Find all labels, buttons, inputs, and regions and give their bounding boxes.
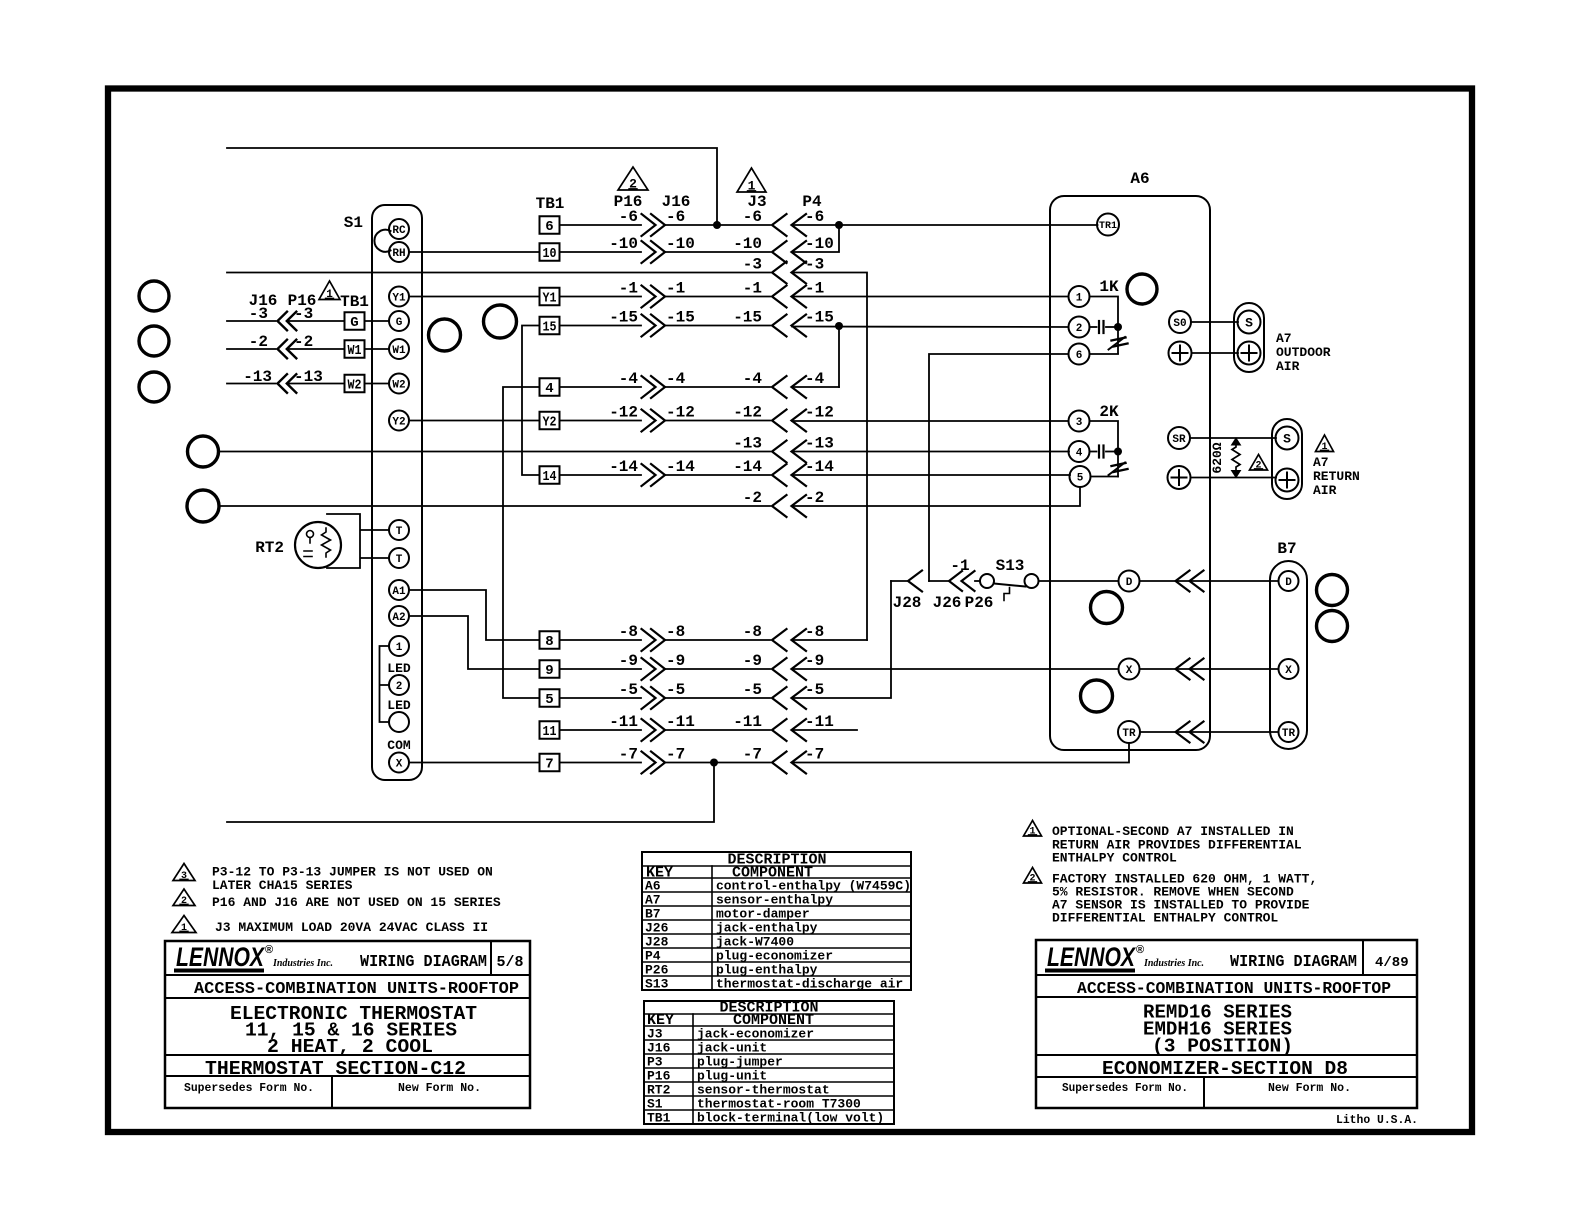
terminal A2: [389, 606, 409, 626]
terminal D (B7): [1279, 571, 1299, 591]
wire W1 box to S1: [365, 348, 390, 350]
resistor 1K wire: [1090, 297, 1119, 328]
svg-text:sensor-thermostat: sensor-thermostat: [697, 1083, 830, 1098]
connector J3/P4 -1: [772, 286, 787, 308]
wire TB1-5 to P16: [560, 697, 642, 699]
svg-text:-14: -14: [609, 458, 638, 476]
svg-text:J28: J28: [645, 935, 669, 950]
svg-text:plug-unit: plug-unit: [697, 1069, 767, 1084]
svg-text:D: D: [1126, 577, 1133, 589]
svg-text:2: 2: [181, 896, 187, 907]
wire P4-5 up to J28: [792, 581, 891, 698]
svg-text:-5: -5: [743, 681, 762, 699]
svg-text:A6: A6: [645, 879, 661, 894]
terminal plus return (A6): [1168, 466, 1191, 489]
svg-text:TR: TR: [1282, 728, 1296, 740]
svg-text:ENTHALPY CONTROL: ENTHALPY CONTROL: [1052, 851, 1177, 866]
wire top loop (field to J16-6): [227, 148, 717, 225]
svg-text:-6: -6: [666, 208, 685, 226]
connector P16/J16 -9: [642, 658, 656, 680]
svg-text:-15: -15: [733, 309, 762, 327]
connector J16/P16 -3 (left): [278, 312, 288, 331]
wire SR to return S: [1190, 437, 1276, 439]
wire -7 bottom loop: [227, 763, 714, 823]
wire RH to TB1-10: [409, 251, 540, 253]
connector P16/J16 -11: [642, 719, 656, 741]
svg-text:-13: -13: [805, 435, 834, 453]
svg-text:7: 7: [545, 757, 553, 773]
trimmer wire 2K: [1117, 452, 1119, 477]
wire terminal 5 right: [1091, 476, 1119, 478]
terminal TR1 (A6): [1097, 214, 1119, 236]
terminal block 7 (TB1): [540, 754, 560, 772]
wire J16-4 to J3: [665, 386, 770, 388]
terminal RH: [389, 242, 409, 262]
svg-text:-12: -12: [733, 404, 762, 422]
wire J16-15 to J3: [665, 325, 770, 327]
svg-text:-15: -15: [609, 309, 638, 327]
connector P16/J16 -5: [642, 687, 656, 709]
svg-text:-8: -8: [805, 623, 824, 641]
svg-text:-7: -7: [619, 746, 638, 764]
terminal X (S1): [389, 753, 409, 773]
terminal T lower: [389, 548, 409, 568]
wire nut circle 4: [188, 436, 219, 467]
switch S13 spring: [1004, 588, 1010, 601]
wire G row mid: [287, 320, 345, 322]
svg-text:-8: -8: [666, 623, 685, 641]
svg-text:LED: LED: [387, 698, 411, 713]
svg-text:D: D: [1285, 577, 1292, 589]
wire P4-7 to A6 TR: [792, 743, 1129, 763]
svg-text:plug-enthalpy: plug-enthalpy: [716, 963, 818, 978]
jumper TB1-4 to TB1-5: [503, 387, 540, 698]
svg-text:-15: -15: [805, 309, 834, 327]
connector J3/P4 -8: [772, 629, 787, 651]
sensor A7 outdoor outline: [1234, 303, 1264, 372]
connector P16/J16 -7: [642, 752, 656, 774]
svg-text:Y1: Y1: [392, 292, 406, 304]
jumper P4-15 to P4-4: [838, 326, 840, 387]
wire P4-2 up to A6 terminal 5: [792, 487, 1080, 506]
svg-text:S0: S0: [1173, 318, 1186, 330]
wire P4-12 to A6 terminal 3: [792, 420, 1069, 422]
wire P4-6 to TR1: [792, 224, 1098, 226]
resistor 620 ohm: [1232, 444, 1240, 470]
wire nut circle 3: [139, 372, 169, 402]
terminal 1 (LED): [389, 636, 409, 656]
terminal block W2 (TB1): [345, 375, 365, 393]
connector P16/J16 -4: [642, 376, 656, 398]
svg-text:T: T: [396, 554, 403, 566]
svg-text:WIRING DIAGRAM: WIRING DIAGRAM: [1230, 952, 1357, 971]
wire J16-12 to J3: [665, 420, 770, 422]
wire P4-8 to -3 drop: [792, 639, 867, 641]
svg-text:3: 3: [1076, 417, 1083, 429]
connector J3/P4 -9: [772, 658, 787, 680]
svg-text:LENNOX: LENNOX: [1047, 942, 1137, 972]
wire terminal 6 to J26: [929, 354, 1069, 581]
wire X to B7: [1140, 668, 1279, 670]
wire TB1-14 to P16: [560, 474, 642, 476]
svg-text:11: 11: [543, 724, 557, 740]
svg-text:B7: B7: [645, 907, 661, 922]
svg-text:A7: A7: [1276, 331, 1292, 346]
svg-text:RETURN: RETURN: [1313, 469, 1360, 484]
svg-text:10: 10: [543, 246, 557, 262]
svg-text:Y2: Y2: [543, 415, 557, 431]
wire Y1 to TB1: [409, 296, 540, 298]
terminal 3 (A6): [1069, 411, 1090, 432]
svg-text:2K: 2K: [1099, 403, 1119, 421]
wire P26 to switch: [975, 580, 980, 582]
svg-text:-1: -1: [805, 280, 824, 298]
connector P16/J16 -1: [642, 286, 656, 308]
svg-text:4/89: 4/89: [1375, 955, 1409, 971]
wire G box to S1: [365, 320, 390, 322]
terminal X (A6): [1119, 659, 1140, 680]
svg-text:jack-W7400: jack-W7400: [716, 935, 794, 950]
svg-text:-1: -1: [619, 280, 638, 298]
svg-text:-11: -11: [609, 713, 638, 731]
svg-text:-1: -1: [743, 280, 762, 298]
svg-text:-5: -5: [666, 681, 685, 699]
terminal SR (A6): [1168, 427, 1190, 449]
svg-text:S1: S1: [344, 214, 363, 232]
connector P16/J16 -12: [642, 410, 656, 432]
svg-text:P26: P26: [645, 963, 669, 978]
svg-text:-7: -7: [666, 746, 685, 764]
wire nut circle 5: [187, 490, 219, 522]
svg-text:B7: B7: [1277, 540, 1296, 558]
wire X to TB1-7: [409, 762, 540, 764]
svg-text:-14: -14: [666, 458, 695, 476]
capacitor at terminal 2: [1090, 326, 1097, 328]
connector J26/P26: [949, 571, 962, 591]
svg-text:-8: -8: [619, 623, 638, 641]
svg-text:-4: -4: [743, 370, 763, 388]
sensor A7 return outline: [1272, 419, 1302, 499]
wire W1 row left: [227, 348, 276, 350]
terminal TR (A6): [1118, 721, 1140, 743]
svg-text:T: T: [396, 526, 403, 538]
terminal S outdoor: [1238, 311, 1261, 334]
connector J28: [908, 571, 922, 592]
svg-text:A7: A7: [645, 893, 661, 908]
svg-text:2: 2: [396, 681, 403, 693]
svg-text:sensor-enthalpy: sensor-enthalpy: [716, 893, 833, 908]
switch S13 contact left: [980, 574, 994, 588]
hole circle A6 low: [1081, 680, 1113, 712]
terminal 6 (A6): [1069, 344, 1090, 365]
svg-text:TB1: TB1: [536, 195, 565, 213]
connector P16/J16 -8: [642, 629, 656, 651]
terminal plus return: [1276, 469, 1299, 492]
junction -6/-10: [835, 221, 843, 229]
terminal 4 (A6): [1069, 441, 1090, 462]
connector J3/P4 -4: [772, 376, 787, 398]
svg-text:A7: A7: [1313, 455, 1329, 470]
svg-text:-6: -6: [743, 208, 762, 226]
terminal 1 (A6): [1069, 286, 1090, 307]
jumper RC-RH: [374, 230, 390, 252]
warning triangle 2 (right note): [1024, 868, 1042, 884]
svg-text:jack-economizer: jack-economizer: [697, 1027, 814, 1042]
hole circle A6 top: [1127, 274, 1157, 304]
terminal block Y1 (TB1): [540, 288, 560, 306]
terminal block G (TB1): [345, 312, 365, 330]
hole circle near S1 upper: [484, 305, 517, 338]
warning triangle 2 (top): [618, 167, 648, 190]
wire P4-9 to A6 terminal X: [792, 668, 1119, 670]
svg-text:1: 1: [1076, 292, 1083, 304]
hole circle near S1 lower: [429, 319, 461, 351]
svg-text:TB1: TB1: [340, 293, 369, 311]
svg-text:COM: COM: [387, 738, 411, 753]
switch S13 contact right: [1025, 574, 1039, 588]
capacitor at terminal 4: [1090, 451, 1097, 453]
connector P16/J16 -15: [642, 315, 656, 337]
border frame: [108, 89, 1472, 1133]
wire J26 entry: [929, 580, 948, 582]
terminal T upper: [389, 520, 409, 540]
wire J16-9 to J3: [665, 668, 770, 670]
wire P4-3 down to -8: [792, 273, 867, 641]
switch S13 blade: [994, 584, 1026, 587]
svg-text:-12: -12: [666, 404, 695, 422]
svg-text:plug-economizer: plug-economizer: [716, 949, 833, 964]
terminal block 15 (TB1): [540, 317, 560, 335]
svg-text:2: 2: [1029, 874, 1035, 885]
wire nut circle 1: [139, 281, 169, 311]
junction 1K trim: [1114, 323, 1122, 331]
svg-text:J26: J26: [645, 921, 669, 936]
RT2 thermistor symbol: [307, 531, 314, 538]
trimmer wire 1K: [1117, 327, 1119, 354]
wire TB1-11 to P16: [560, 729, 642, 731]
connector J3/P4 -11: [772, 719, 787, 741]
svg-text:5: 5: [545, 692, 553, 708]
svg-text:jack-enthalpy: jack-enthalpy: [716, 921, 818, 936]
wire A1 to TB1-8: [409, 590, 540, 640]
svg-text:3: 3: [181, 871, 187, 882]
svg-text:ECONOMIZER-SECTION D8: ECONOMIZER-SECTION D8: [1102, 1058, 1348, 1080]
svg-text:P4: P4: [645, 949, 661, 964]
svg-text:motor-damper: motor-damper: [716, 907, 810, 922]
svg-text:2: 2: [1255, 461, 1261, 472]
terminal block 11 (TB1): [540, 721, 560, 739]
svg-text:Litho U.S.A.: Litho U.S.A.: [1336, 1113, 1418, 1127]
terminal block 5 (TB1): [540, 689, 560, 707]
junction -15/-4: [835, 322, 843, 330]
svg-text:-5: -5: [619, 681, 638, 699]
svg-text:15: 15: [543, 320, 557, 336]
svg-text:-12: -12: [805, 404, 834, 422]
wire TB1-9 to P16: [560, 668, 642, 670]
connector P16/J16 -6: [642, 214, 656, 236]
title block right frame: [1036, 940, 1417, 1108]
svg-text:thermostat-room T7300: thermostat-room T7300: [697, 1097, 861, 1112]
jumper TB1-15 to TB1-14: [522, 326, 540, 476]
svg-text:-9: -9: [619, 652, 638, 670]
svg-text:-11: -11: [733, 713, 762, 731]
terminal Y1 (S1): [389, 287, 409, 307]
hole circle right of B7 upper: [1317, 575, 1348, 606]
svg-text:block-terminal(low volt): block-terminal(low volt): [697, 1111, 884, 1126]
wire TB1-Y2 to P16: [560, 420, 642, 422]
terminal 5 (A6): [1070, 466, 1091, 487]
terminal block 10 (TB1): [540, 243, 560, 261]
svg-text:W2: W2: [392, 379, 405, 391]
svg-text:-3: -3: [743, 256, 762, 274]
wire W1 row mid: [287, 348, 345, 350]
wire W2 row mid: [287, 383, 345, 385]
svg-text:-9: -9: [666, 652, 685, 670]
wire nut circle 2: [139, 326, 169, 356]
svg-text:-8: -8: [743, 623, 762, 641]
svg-text:-10: -10: [805, 235, 834, 253]
svg-text:TB1: TB1: [647, 1111, 671, 1126]
svg-text:-5: -5: [805, 681, 824, 699]
wire P4-14 to A6 terminal 5: [792, 474, 1070, 476]
connector P16/J16 -10: [642, 241, 656, 263]
svg-text:AIR: AIR: [1313, 483, 1337, 498]
hole circle right of B7 lower: [1317, 611, 1348, 642]
svg-text:-9: -9: [805, 652, 824, 670]
wire J16-1 to J3: [665, 296, 770, 298]
svg-text:A1: A1: [392, 586, 406, 598]
svg-text:Industries Inc.: Industries Inc.: [1143, 958, 1204, 969]
svg-text:New Form No.: New Form No.: [398, 1082, 481, 1095]
wire Y2 to TB1: [409, 420, 540, 422]
svg-text:P26: P26: [965, 594, 994, 612]
terminal RC: [389, 219, 409, 239]
wire J16-7 to J3: [665, 762, 770, 764]
svg-text:S: S: [1283, 432, 1291, 447]
connector J3/P4 -3: [772, 262, 787, 284]
svg-text:14: 14: [543, 469, 557, 485]
svg-text:SR: SR: [1172, 434, 1186, 446]
terminal plus outdoor (A6): [1169, 342, 1192, 365]
wire -13 long: [219, 451, 771, 453]
svg-text:LED: LED: [387, 661, 411, 676]
svg-text:2 HEAT, 2 COOL: 2 HEAT, 2 COOL: [267, 1036, 433, 1058]
connector J3/P4 -13: [772, 441, 787, 463]
svg-text:-10: -10: [666, 235, 695, 253]
thermostat S1 outline: [372, 205, 422, 780]
svg-text:-4: -4: [666, 370, 686, 388]
svg-text:thermostat-discharge air: thermostat-discharge air: [716, 977, 903, 992]
wire J16-11 to J3: [665, 729, 770, 731]
warning triangle 1 (return air): [1316, 435, 1334, 452]
svg-text:Y1: Y1: [543, 291, 557, 307]
terminal A1: [389, 580, 409, 600]
terminal X (B7): [1279, 659, 1299, 679]
svg-text:X: X: [1285, 665, 1292, 677]
svg-text:1: 1: [181, 923, 187, 934]
wire P4-13 to A6 terminal 4: [792, 451, 1069, 453]
svg-text:-9: -9: [743, 652, 762, 670]
svg-text:5/8: 5/8: [496, 954, 523, 971]
svg-text:S13: S13: [645, 977, 669, 992]
svg-text:J28: J28: [893, 594, 922, 612]
svg-text:-11: -11: [666, 713, 695, 731]
svg-text:(3 POSITION): (3 POSITION): [1152, 1036, 1293, 1058]
svg-text:J26: J26: [933, 594, 962, 612]
wire P4-15 to A6 terminal 2: [792, 326, 1069, 329]
svg-text:-14: -14: [805, 458, 834, 476]
warning triangle 1 (top): [737, 168, 766, 192]
svg-text:5: 5: [1077, 472, 1084, 484]
wire J16-5 to J3: [665, 697, 770, 699]
svg-text:control-enthalpy (W7459C): control-enthalpy (W7459C): [716, 879, 911, 894]
terminal block W1 (TB1): [345, 340, 365, 358]
svg-text:-1: -1: [666, 280, 685, 298]
svg-text:ACCESS-COMBINATION UNITS-ROOFT: ACCESS-COMBINATION UNITS-ROOFTOP: [1077, 980, 1391, 999]
wire TB1-4 to P16: [560, 386, 642, 388]
svg-text:P16: P16: [647, 1069, 671, 1084]
svg-text:TR: TR: [1122, 728, 1136, 740]
wire D to B7: [1140, 580, 1279, 582]
warning triangle 2 (note): [173, 889, 195, 906]
wire TB1-15 to P16: [560, 325, 642, 327]
svg-text:4: 4: [545, 381, 553, 397]
connector P16/J16 -14: [642, 464, 656, 486]
svg-text:New Form No.: New Form No.: [1268, 1082, 1351, 1095]
svg-text:1: 1: [326, 289, 333, 301]
warning triangle 1 (left): [319, 281, 340, 300]
svg-text:1: 1: [1321, 442, 1327, 453]
svg-text:J16: J16: [647, 1041, 671, 1056]
svg-text:W1: W1: [392, 345, 406, 357]
svg-text:P16 AND J16 ARE NOT USED ON 15: P16 AND J16 ARE NOT USED ON 15 SERIES: [212, 895, 501, 910]
wire P4-11 stub: [792, 729, 857, 731]
terminal S0 (A6): [1169, 311, 1191, 333]
svg-text:X: X: [1126, 665, 1133, 677]
wire terminal 6 right: [1090, 353, 1119, 355]
sensor RT2: [295, 522, 341, 568]
terminal 2 (LED): [389, 675, 409, 695]
wire P4-10 up to -6: [792, 225, 839, 252]
terminal plus outdoor: [1238, 342, 1261, 365]
terminal Y2 (S1): [389, 411, 409, 431]
connector J3/P4 -7: [772, 752, 787, 774]
terminal G (S1): [389, 311, 409, 331]
svg-text:Y2: Y2: [392, 416, 405, 428]
wire J16-8 to J3: [665, 639, 770, 641]
svg-text:®: ®: [265, 944, 273, 956]
table 2 grid: [644, 1001, 894, 1124]
wire W2 box to S1: [365, 383, 390, 385]
svg-text:G: G: [350, 315, 358, 331]
svg-text:jack-unit: jack-unit: [697, 1041, 767, 1056]
wire plus to return plus: [1191, 477, 1277, 479]
motor B7 outline: [1270, 561, 1307, 749]
svg-text:P3: P3: [647, 1055, 663, 1070]
junction top wire / -6: [713, 221, 721, 229]
terminal block 9 (TB1): [540, 660, 560, 678]
connector J3/P4 -10: [772, 241, 787, 263]
svg-text:-4: -4: [805, 370, 825, 388]
svg-text:-6: -6: [619, 208, 638, 226]
connector J3/P4 -12: [772, 410, 787, 432]
terminal block 14 (TB1): [540, 466, 560, 484]
svg-text:-6: -6: [805, 208, 824, 226]
svg-text:LATER CHA15 SERIES: LATER CHA15 SERIES: [212, 878, 353, 893]
trimmer arrow 2K: [1112, 463, 1126, 466]
svg-text:1: 1: [1029, 827, 1035, 838]
terminal TR (B7): [1279, 722, 1299, 742]
